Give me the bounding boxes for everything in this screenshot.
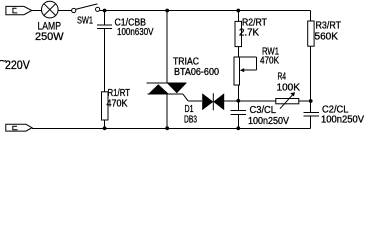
svg-text:TRIAC: TRIAC [173, 57, 199, 68]
svg-text:220V: 220V [5, 58, 30, 72]
svg-text:R1/RT: R1/RT [108, 88, 131, 99]
svg-text:C3/CL: C3/CL [250, 105, 277, 116]
svg-text:470K: 470K [107, 99, 128, 110]
svg-text:R4: R4 [278, 72, 287, 83]
svg-text:100K: 100K [277, 83, 301, 94]
svg-text:SW1: SW1 [77, 16, 93, 27]
svg-text:DB3: DB3 [184, 115, 197, 126]
svg-text:2.7K: 2.7K [239, 28, 259, 39]
svg-text:D1: D1 [185, 104, 194, 115]
svg-text:470K: 470K [260, 56, 279, 67]
svg-text:560K: 560K [315, 32, 339, 43]
svg-text:BTA06-600: BTA06-600 [174, 67, 219, 78]
svg-text:100n630V: 100n630V [117, 27, 154, 38]
svg-text:250W: 250W [35, 31, 64, 43]
svg-text:100n250V: 100n250V [248, 116, 289, 127]
svg-text:R3/RT: R3/RT [316, 21, 342, 32]
svg-text:100n250V: 100n250V [321, 115, 364, 126]
